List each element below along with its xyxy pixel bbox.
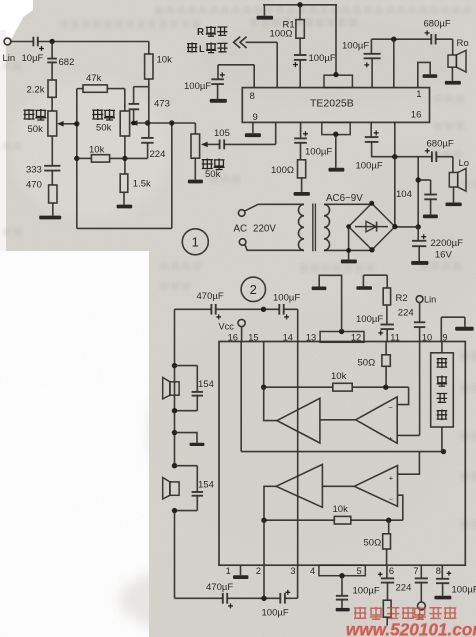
- svg-text:50Ω: 50Ω: [358, 358, 376, 369]
- wire 47k line: [77, 88, 83, 90]
- node SP2 bottom: [172, 508, 177, 513]
- wire cap up to pin3: [285, 597, 298, 599]
- svg-text:50k: 50k: [28, 124, 44, 135]
- svg-text:Ro: Ro: [457, 38, 469, 49]
- svg-text:100µF: 100µF: [356, 314, 383, 325]
- wire pin10 to noninverting input: [419, 342, 421, 436]
- svg-text:104: 104: [396, 189, 412, 200]
- svg-text:154: 154: [198, 480, 214, 491]
- transformer T1 primary: [298, 204, 304, 250]
- wire 470 to ground: [52, 203, 54, 216]
- svg-text:100µF: 100µF: [353, 586, 380, 597]
- svg-text:100µF: 100µF: [356, 161, 383, 172]
- svg-text:−: −: [389, 494, 394, 503]
- svg-text:10µF: 10µF: [22, 53, 44, 64]
- wire Ro line corner to 100uF: [370, 39, 372, 53]
- wire to node A: [38, 41, 149, 43]
- ground below notch cap: [336, 608, 350, 612]
- svg-text:224: 224: [398, 308, 414, 319]
- svg-text:16V: 16V: [435, 250, 453, 261]
- wire mid line to lower noninverting input: [398, 452, 420, 475]
- wire speaker Ro to ground: [451, 67, 453, 81]
- svg-text:473: 473: [154, 99, 170, 110]
- svg-text:100µF: 100µF: [273, 293, 300, 304]
- feedback line bottom channel: [264, 519, 334, 521]
- svg-text:224: 224: [150, 149, 166, 160]
- V+ rail from bridge: [395, 226, 418, 228]
- capacitor 154 (1): [192, 391, 203, 393]
- svg-text:www.520101.com: www.520101.com: [345, 619, 476, 637]
- node pin16 on output line: [392, 154, 397, 159]
- wire speaker column 1: [174, 366, 176, 411]
- circled number 2: [241, 277, 265, 301]
- svg-text:2: 2: [250, 282, 257, 297]
- wire secondary bottom to bridge: [324, 249, 372, 251]
- wire 100uF pin8 line: [218, 64, 254, 66]
- capacitor 333: [44, 165, 60, 167]
- wire to node pin2: [227, 597, 280, 599]
- node 104 branch: [416, 177, 421, 182]
- svg-text:15: 15: [248, 332, 258, 342]
- wire 100uF down to IC top: [371, 58, 373, 87]
- node 10k-line junction left: [74, 156, 79, 161]
- wire mid ground stub: [175, 433, 198, 443]
- capacitor at pin7: [415, 577, 428, 579]
- svg-text:10k: 10k: [89, 145, 105, 156]
- wire 50ohm to feedback: [385, 366, 387, 387]
- transformer T1 secondary: [324, 204, 330, 250]
- wire 682 to 2.2k: [51, 63, 53, 80]
- svg-text:50Ω: 50Ω: [364, 538, 382, 549]
- svg-text:47k: 47k: [86, 73, 102, 84]
- wire pin11 to 50ohm: [385, 342, 387, 355]
- capacitor 680uF output Lo: [431, 151, 433, 162]
- volume wiper arrow: [201, 142, 208, 148]
- resistor 10k vertical: [145, 54, 153, 79]
- svg-text:6: 6: [389, 566, 394, 576]
- resistor 10k horizontal: [91, 155, 109, 162]
- wire 104 to ground: [430, 199, 432, 214]
- svg-text:5: 5: [357, 566, 362, 576]
- driver circuit box (qu-dong-dian-lu): [431, 353, 454, 427]
- resistor 50ohm bottom channel: [383, 534, 391, 549]
- svg-text:9: 9: [442, 332, 447, 342]
- ground below 100uF pin8: [210, 99, 227, 103]
- wire arrow line into IC top: [246, 41, 278, 43]
- svg-text:10k: 10k: [157, 55, 173, 66]
- svg-text:100Ω: 100Ω: [271, 165, 294, 176]
- wire 100uF to IC top: [299, 60, 301, 88]
- wire 154 loop 1 bottom: [196, 396, 198, 411]
- svg-text:8: 8: [250, 91, 255, 102]
- wire volume pot top: [194, 123, 196, 134]
- wire pin1 to ground: [240, 565, 242, 575]
- wire 224 to R1 resistor: [387, 583, 389, 601]
- node bass bottom on 10k line: [122, 156, 127, 161]
- ground below bridge left vertex: [341, 260, 357, 264]
- capacitor 10uF input coupling: [32, 37, 34, 47]
- wire pin15 column to output node: [370, 122, 372, 136]
- wire cap to V+ line: [371, 142, 373, 157]
- red watermark site name (jia-dian-wei-xiu-zi-liao-wang): [354, 607, 366, 619]
- ground below speaker Ro: [445, 81, 461, 85]
- wire top to 10k: [148, 42, 150, 55]
- IC top notch tab: [324, 75, 352, 87]
- ground below pin8 (2): [434, 596, 451, 600]
- output line Ro: [371, 38, 431, 40]
- wire pin below IC to 100uF (100ohm chain): [300, 122, 302, 137]
- wire to R2: [386, 275, 388, 288]
- svg-text:7: 7: [413, 566, 418, 576]
- wire cap to pin11: [386, 329, 388, 341]
- ground below 470: [39, 216, 61, 220]
- speaker chain: node top: [172, 363, 177, 368]
- capacitor 100uF at pin8: [211, 78, 224, 80]
- pin13 notch tab: [320, 332, 364, 343]
- wire Lin to cap: [419, 303, 421, 322]
- svg-text:100µF: 100µF: [305, 147, 332, 158]
- resistor R2 224: [383, 288, 390, 305]
- node pin1 on Ro line: [391, 37, 396, 42]
- wire to node pin15: [216, 308, 279, 310]
- node bridge right vertex: [392, 224, 397, 229]
- ground below 1.5k: [117, 205, 133, 209]
- speaker Ro: [448, 55, 456, 67]
- speaker Lo: [449, 173, 457, 188]
- svg-text:1: 1: [416, 89, 421, 100]
- node notch top: [333, 72, 338, 77]
- wire cap to 100ohm: [300, 143, 302, 160]
- pin1 bracket ground on IC top: [418, 62, 430, 87]
- wire cap to ground: [341, 600, 343, 608]
- wire left column down to speakers: [174, 309, 176, 365]
- IC U1 TE2025B body: [242, 88, 429, 123]
- wire 154 loop 2 bottom: [196, 496, 198, 511]
- wire 105 to IC pin: [224, 143, 276, 145]
- node feedback left bottom: [261, 518, 266, 523]
- wire 10k-line: [77, 157, 92, 159]
- wire pin9 to ground bracket: [440, 317, 442, 341]
- svg-text:−: −: [388, 403, 393, 412]
- wire secondary top to bridge: [324, 203, 372, 205]
- wire 2.2k to treble pot: [51, 97, 53, 111]
- resistor 470: [49, 185, 57, 203]
- node pin15 top: [261, 307, 266, 312]
- wire cap to pin14: [284, 308, 298, 310]
- node rail to R1: [297, 2, 302, 7]
- wire left column to bottom: [174, 511, 176, 599]
- node on secondary bottom wire: [346, 248, 351, 253]
- svg-text:AC: AC: [234, 224, 248, 235]
- svg-text:100µF: 100µF: [262, 608, 289, 619]
- svg-text:9: 9: [253, 112, 258, 123]
- wire node down to IC top: [393, 39, 395, 87]
- node 50ohm bottom: [383, 385, 388, 390]
- wire bass wiper line to volume pot: [131, 122, 196, 124]
- node A junction: [49, 39, 54, 44]
- wire pin16 column: [394, 122, 396, 156]
- wire cap to pin10: [419, 327, 421, 341]
- svg-text:10k: 10k: [331, 371, 347, 382]
- svg-text:100µF: 100µF: [342, 41, 369, 52]
- wire node to amp1 input: [264, 387, 277, 420]
- wire pin7 column below IC: [420, 565, 422, 578]
- op-amp A4 power amp bottom: [276, 464, 322, 507]
- capacitor 680uF output Ro: [430, 34, 432, 45]
- capacitor 100uF above 100ohm: [294, 137, 307, 139]
- svg-text:2200µF: 2200µF: [431, 238, 464, 249]
- wire rail to 2200uF: [417, 227, 419, 240]
- svg-text:Lin: Lin: [424, 295, 436, 305]
- wire input top: [11, 41, 33, 43]
- svg-text:470µF: 470µF: [197, 291, 224, 302]
- wire cap to ground: [442, 583, 444, 596]
- capacitor 100uF at pin8 (2): [436, 578, 449, 580]
- wire notch to 100uF: [341, 576, 343, 596]
- op-amp A3 preamp bottom: [354, 466, 397, 507]
- wire 224 to 10k line: [147, 143, 149, 159]
- node SP2 top: [172, 463, 177, 468]
- wire R2 to 100uF: [386, 305, 388, 324]
- wire 680uF to speaker Lo: [436, 156, 453, 158]
- wire cap to terminal R: [420, 583, 422, 602]
- op-amp A2 preamp top: [356, 397, 398, 444]
- wire treble pot to 333: [51, 136, 53, 165]
- wire node A down to 682: [51, 42, 53, 59]
- svg-text:2.2k: 2.2k: [27, 85, 45, 96]
- wire to mid ground node: [174, 411, 176, 466]
- resistor R1 100ohm: [296, 20, 304, 39]
- wire 154 loop 1 top: [175, 365, 198, 367]
- power switch: [238, 210, 245, 217]
- ground at rail left end: [263, 5, 265, 16]
- svg-text:100Ω: 100Ω: [270, 29, 293, 40]
- svg-text:10: 10: [422, 332, 432, 342]
- wire pin6 column below IC: [386, 565, 388, 578]
- capacitor 682: [47, 58, 57, 60]
- mid supply line inside IC: [241, 451, 443, 453]
- wire 680uF to speaker Ro: [436, 38, 453, 40]
- svg-text:Lo: Lo: [459, 158, 470, 169]
- capacitor 470uF bottom: [222, 593, 224, 604]
- potentiometer treble 50k (gao-yin): [48, 111, 57, 136]
- resistor 1.5k: [120, 174, 128, 192]
- svg-text:16: 16: [228, 332, 238, 342]
- capacitor 100uF bottom: [279, 593, 281, 604]
- svg-text:L: L: [199, 44, 205, 54]
- wire bass pot bottom: [124, 136, 126, 174]
- svg-text:16: 16: [411, 110, 422, 121]
- svg-text:470µF: 470µF: [206, 582, 233, 593]
- wire 473 to bass wiper line: [133, 109, 135, 123]
- wire 154 loop 2 top: [175, 465, 198, 467]
- svg-text:105: 105: [214, 128, 230, 139]
- svg-text:2: 2: [256, 566, 261, 576]
- wire left loop vertical: [76, 89, 78, 229]
- wire pin8 column below IC: [441, 565, 443, 578]
- svg-text:Lin: Lin: [3, 53, 16, 64]
- pin5 notch tab bottom: [319, 565, 365, 576]
- svg-text:154: 154: [198, 379, 214, 390]
- svg-text:4: 4: [310, 566, 315, 576]
- capacitor 100uF top: [278, 304, 280, 315]
- wire pin14 column through: [297, 342, 299, 566]
- ground below 104: [423, 215, 438, 219]
- wire feedback to 50ohm: [388, 520, 390, 534]
- wire lower inverting input to feedback: [398, 495, 403, 520]
- potentiometer bass 50k (di-yin): [120, 111, 129, 136]
- svg-text:10k: 10k: [333, 504, 349, 515]
- wire pin2 column inside: [263, 520, 265, 565]
- wire R1 to 100uF: [299, 38, 301, 54]
- wire Vcc to pin16: [241, 327, 243, 342]
- svg-text:100µF: 100µF: [452, 585, 476, 596]
- arrow double chevron to R channel: [234, 37, 241, 48]
- svg-text:+: +: [389, 473, 394, 482]
- ground below 100ohm: [294, 192, 310, 196]
- resistor 10k feedback bottom: [334, 516, 351, 524]
- circled number 1: [182, 229, 208, 255]
- node V+ rail right: [416, 224, 421, 229]
- terminal Lin input (circuit 1): [4, 38, 11, 45]
- wire rail to R1: [299, 5, 301, 20]
- resistor below pin6: [383, 600, 391, 617]
- wire V+ branch column: [417, 157, 419, 227]
- wire rail corner to notch: [335, 5, 337, 74]
- potentiometer volume 50k (yin-liang): [191, 134, 200, 158]
- ground below bottom notch: [329, 168, 345, 172]
- wire loop right vertical: [171, 123, 173, 228]
- speaker SP1: [170, 382, 179, 395]
- ground below volume pot: [188, 180, 203, 184]
- wire 333 to 470: [51, 171, 53, 185]
- svg-text:8: 8: [436, 566, 441, 576]
- wire 10k down: [148, 79, 150, 87]
- wire pin2 column below IC: [263, 565, 265, 598]
- svg-text:220V: 220V: [253, 224, 276, 235]
- capacitor 100uF at pin15: [365, 136, 379, 138]
- node junction on bass wiper line: [145, 120, 150, 125]
- wire 2200uF to ground: [418, 246, 420, 261]
- node treble wiper junction: [74, 121, 79, 126]
- treble pot wiper arrow: [62, 123, 77, 125]
- node bridge left vertex: [346, 224, 351, 229]
- ground below 2200uF: [411, 261, 428, 265]
- wire driver bottom to mid line: [441, 427, 443, 452]
- node pin2 bottom: [261, 596, 266, 601]
- ground mid speaker chain: [190, 443, 205, 446]
- top ground rail: [263, 4, 337, 6]
- capacitor 470uF top: [210, 304, 212, 315]
- node bridge bottom vertex: [369, 247, 374, 252]
- svg-text:680µF: 680µF: [424, 19, 451, 30]
- svg-text:R2: R2: [396, 293, 408, 304]
- svg-text:224: 224: [396, 583, 412, 594]
- ground below R2 bracket: [356, 286, 372, 290]
- bass pot wiper arrow: [131, 120, 138, 126]
- op-amp A1 power amp top: [277, 398, 320, 443]
- svg-text:TE2025B: TE2025B: [310, 98, 354, 110]
- capacitor 154 (2): [192, 491, 203, 493]
- V+ / output line Lo: [371, 156, 432, 158]
- node bass line to loop: [169, 120, 174, 125]
- svg-text:333: 333: [26, 165, 42, 176]
- wire node to amp4 input: [264, 486, 276, 520]
- svg-text:100µF: 100µF: [184, 81, 211, 92]
- node 50ohm bottom channel: [386, 518, 391, 523]
- svg-text:AC6~9V: AC6~9V: [326, 193, 363, 204]
- wire loop bottom: [77, 227, 172, 229]
- svg-text:Vcc: Vcc: [219, 322, 235, 332]
- node pin5 notch: [339, 573, 344, 578]
- ground below speaker Lo: [446, 203, 462, 207]
- capacitor 100uF at Ro line: [364, 53, 381, 55]
- svg-text:14: 14: [283, 332, 293, 342]
- wire pin9 to ground: [252, 122, 254, 133]
- wire R2 top to ground bracket: [363, 274, 387, 276]
- resistor 10k feedback top: [333, 383, 352, 391]
- wire speaker Lo to ground: [453, 187, 455, 203]
- ground at pin9 bracket: [455, 327, 473, 331]
- svg-text:50k: 50k: [205, 169, 221, 180]
- terminal AC bottom: [239, 239, 246, 246]
- capacitor 104: [424, 194, 437, 196]
- wire supply line top of circuit 2: [175, 308, 212, 310]
- svg-text:470: 470: [26, 180, 42, 191]
- svg-text:682: 682: [59, 57, 75, 68]
- wire feedback to inverting input: [397, 387, 408, 404]
- node pin13 top: [339, 329, 344, 334]
- capacitor at pin10: [414, 321, 425, 323]
- svg-text:11: 11: [390, 332, 400, 342]
- terminal R input: [418, 602, 426, 610]
- resistor 100ohm: [298, 160, 306, 178]
- wire resistor to bottom: [386, 617, 388, 625]
- resistor 47k: [83, 85, 107, 92]
- ground below pin9: [245, 133, 261, 137]
- feedback line top channel: [264, 386, 333, 388]
- wire amp4 to amp3: [322, 485, 354, 487]
- wire pin16 down to bridge: [394, 157, 396, 227]
- wire branch to 473: [134, 86, 149, 88]
- node SP1 bottom: [172, 408, 177, 413]
- capacitor 100uF below notch: [336, 595, 348, 597]
- wire pin13 up and to ground: [319, 275, 341, 331]
- capacitor 224 at pin6: [381, 577, 394, 579]
- transformer core: [312, 204, 314, 252]
- wire driver top to IC edge: [441, 342, 443, 353]
- capacitor 105: [219, 140, 221, 150]
- svg-text:1: 1: [226, 566, 231, 576]
- wire bottom notch to ground: [335, 135, 337, 168]
- wire pin15 column inside: [263, 342, 265, 388]
- capacitor 473: [129, 103, 140, 105]
- node driver bottom: [441, 449, 446, 454]
- wire bottom supply line: [175, 597, 223, 599]
- svg-text:1.5k: 1.5k: [133, 179, 151, 190]
- capacitor 2200uF 16V: [412, 240, 426, 242]
- wire 1.5k to ground: [123, 192, 125, 204]
- svg-text:680µF: 680µF: [427, 139, 454, 150]
- node notch bottom: [333, 132, 338, 137]
- wire amp1 to amp2: [320, 419, 356, 421]
- svg-text:+: +: [388, 434, 393, 443]
- node 473 junction: [131, 121, 136, 126]
- resistor 50ohm top channel: [382, 355, 390, 367]
- speaker SP2: [170, 482, 179, 495]
- wire bass pot top: [124, 89, 126, 111]
- capacitor 100uF below R1: [294, 54, 307, 56]
